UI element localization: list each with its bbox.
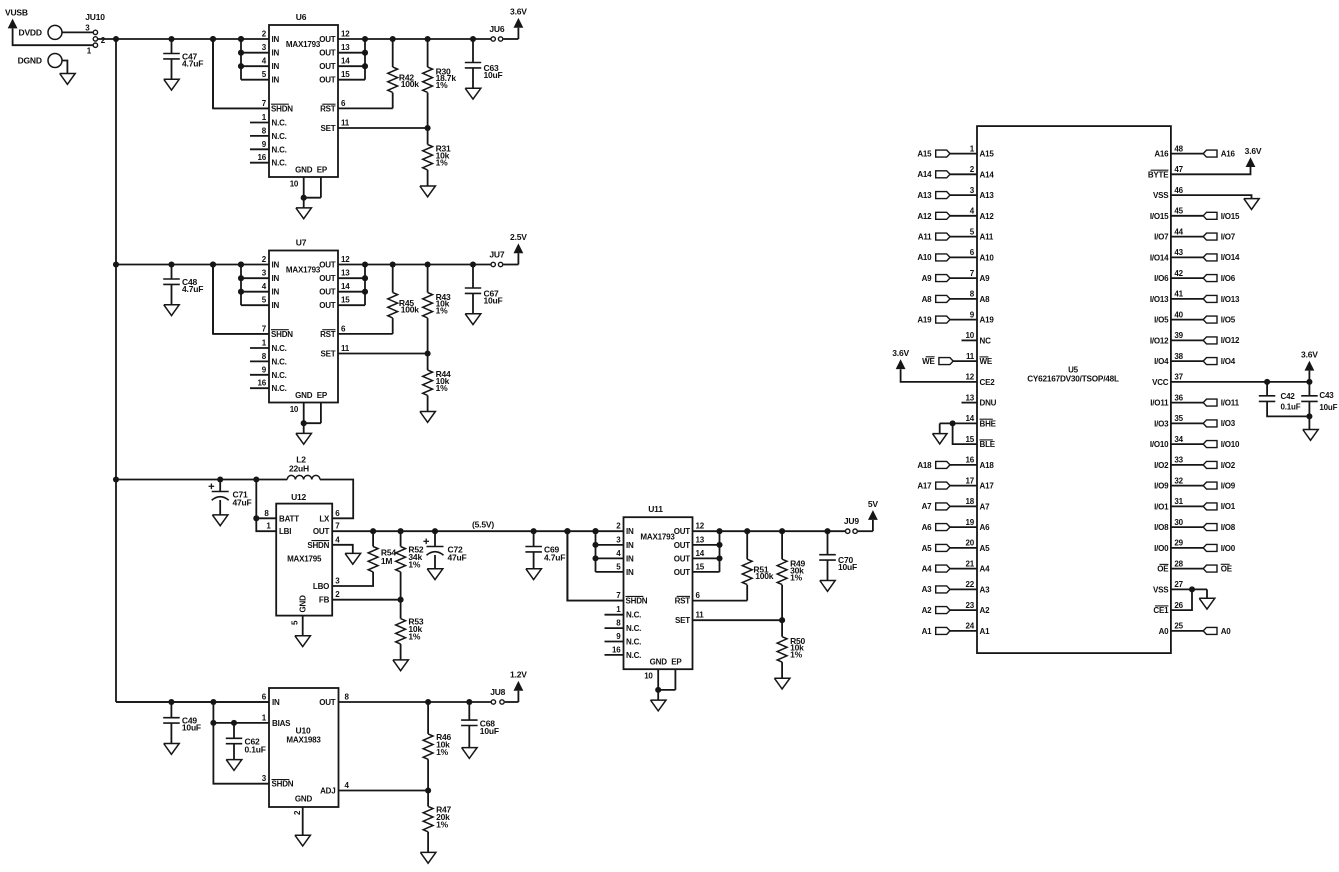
svg-text:A3: A3: [980, 585, 991, 594]
svg-text:2.5V: 2.5V: [510, 232, 527, 242]
svg-text:IN: IN: [626, 527, 634, 536]
svg-text:16: 16: [612, 645, 621, 654]
svg-text:I/O6: I/O6: [1154, 274, 1169, 283]
svg-text:17: 17: [966, 476, 975, 485]
svg-text:BLE: BLE: [980, 440, 996, 449]
svg-text:JU8: JU8: [490, 687, 505, 697]
svg-text:OUT: OUT: [319, 288, 336, 297]
svg-text:JU7: JU7: [489, 250, 504, 260]
svg-text:13: 13: [966, 393, 975, 402]
svg-text:A16: A16: [1221, 150, 1236, 159]
svg-text:WE: WE: [980, 357, 993, 366]
svg-text:6: 6: [335, 509, 340, 518]
svg-text:N.C.: N.C.: [272, 357, 287, 366]
svg-text:I/O2: I/O2: [1221, 461, 1236, 470]
svg-text:12: 12: [696, 522, 705, 531]
svg-text:13: 13: [696, 535, 705, 544]
svg-text:I/O13: I/O13: [1150, 295, 1169, 304]
svg-text:VCC: VCC: [1152, 378, 1169, 387]
svg-text:I/O11: I/O11: [1150, 399, 1169, 408]
svg-text:N.C.: N.C.: [626, 624, 641, 633]
svg-text:N.C.: N.C.: [272, 344, 287, 353]
svg-text:JU10: JU10: [85, 12, 105, 22]
svg-text:A14: A14: [980, 170, 995, 179]
svg-text:MAX1983: MAX1983: [286, 736, 321, 745]
svg-text:10: 10: [644, 672, 653, 681]
svg-text:10: 10: [290, 405, 299, 414]
svg-text:1%: 1%: [436, 820, 449, 830]
svg-text:1%: 1%: [790, 650, 803, 660]
svg-text:I/O2: I/O2: [1154, 461, 1169, 470]
svg-text:OUT: OUT: [319, 698, 336, 707]
svg-text:A5: A5: [922, 544, 933, 553]
svg-text:NC: NC: [980, 336, 992, 345]
svg-text:28: 28: [1174, 559, 1183, 568]
svg-text:33: 33: [1174, 456, 1183, 465]
svg-text:CE1: CE1: [1153, 606, 1169, 615]
svg-text:RST: RST: [320, 330, 336, 339]
svg-text:A6: A6: [922, 523, 933, 532]
svg-text:OE: OE: [1157, 565, 1169, 574]
svg-text:44: 44: [1174, 227, 1183, 236]
svg-text:45: 45: [1174, 207, 1183, 216]
svg-text:4.7uF: 4.7uF: [544, 553, 565, 563]
svg-text:I/O6: I/O6: [1221, 274, 1236, 283]
svg-text:VSS: VSS: [1153, 585, 1169, 594]
svg-text:10uF: 10uF: [182, 723, 201, 733]
svg-text:24: 24: [966, 622, 975, 631]
svg-text:A1: A1: [922, 627, 933, 636]
svg-text:20: 20: [966, 539, 975, 548]
svg-text:U12: U12: [291, 492, 306, 502]
svg-text:SET: SET: [321, 124, 336, 133]
svg-text:I/O5: I/O5: [1154, 316, 1169, 325]
svg-text:3.6V: 3.6V: [510, 7, 527, 17]
svg-text:OUT: OUT: [319, 49, 336, 58]
svg-text:1%: 1%: [436, 80, 449, 90]
svg-text:5V: 5V: [868, 499, 879, 509]
svg-text:1%: 1%: [436, 157, 449, 167]
svg-text:I/O15: I/O15: [1150, 212, 1169, 221]
svg-text:N.C.: N.C.: [272, 384, 287, 393]
svg-text:SHDN: SHDN: [307, 541, 329, 550]
svg-text:47uF: 47uF: [448, 553, 467, 563]
svg-text:0.1uF: 0.1uF: [245, 744, 266, 754]
svg-text:12: 12: [966, 373, 975, 382]
svg-text:SHDN: SHDN: [271, 104, 293, 113]
svg-text:29: 29: [1174, 539, 1183, 548]
svg-text:VSS: VSS: [1153, 191, 1169, 200]
svg-text:10uF: 10uF: [480, 726, 499, 736]
svg-text:39: 39: [1174, 331, 1183, 340]
svg-text:C42: C42: [1281, 392, 1296, 401]
svg-text:43: 43: [1174, 248, 1183, 257]
svg-text:OE: OE: [1221, 565, 1233, 574]
svg-text:OUT: OUT: [319, 62, 336, 71]
svg-text:A11: A11: [918, 233, 932, 242]
svg-text:IN: IN: [272, 35, 280, 44]
svg-text:10: 10: [290, 180, 299, 189]
svg-text:A0: A0: [1159, 627, 1170, 636]
svg-text:A18: A18: [980, 461, 995, 470]
svg-text:WE: WE: [922, 357, 935, 366]
svg-text:N.C.: N.C.: [272, 119, 287, 128]
svg-text:BHE: BHE: [980, 419, 997, 428]
svg-text:11: 11: [341, 344, 350, 353]
svg-text:I/O11: I/O11: [1221, 399, 1240, 408]
svg-text:12: 12: [341, 30, 350, 39]
svg-text:A3: A3: [922, 585, 933, 594]
svg-text:10: 10: [966, 331, 975, 340]
svg-text:RST: RST: [320, 104, 336, 113]
svg-text:U5: U5: [1068, 366, 1079, 375]
svg-text:I/O14: I/O14: [1150, 253, 1169, 262]
svg-text:IN: IN: [626, 554, 634, 563]
svg-text:SHDN: SHDN: [271, 330, 293, 339]
svg-text:15: 15: [341, 296, 350, 305]
svg-text:(5.5V): (5.5V): [472, 519, 494, 529]
svg-text:3.6V: 3.6V: [892, 348, 909, 358]
svg-text:EP: EP: [671, 658, 682, 667]
svg-text:U11: U11: [648, 504, 663, 514]
svg-text:A15: A15: [980, 150, 995, 159]
svg-text:A7: A7: [922, 502, 933, 511]
svg-text:10uF: 10uF: [484, 295, 503, 305]
svg-text:31: 31: [1174, 497, 1183, 506]
svg-text:A8: A8: [922, 295, 933, 304]
svg-text:SET: SET: [321, 350, 336, 359]
svg-text:10uF: 10uF: [1319, 403, 1337, 412]
svg-text:CY62167DV30/TSOP/48L: CY62167DV30/TSOP/48L: [1027, 375, 1119, 384]
svg-text:GND: GND: [650, 658, 668, 667]
svg-text:3.6V: 3.6V: [1245, 146, 1262, 156]
svg-text:13: 13: [341, 269, 350, 278]
svg-text:I/O13: I/O13: [1221, 295, 1240, 304]
svg-text:DNU: DNU: [980, 399, 997, 408]
svg-text:FB: FB: [319, 596, 330, 605]
svg-text:A10: A10: [917, 253, 932, 262]
svg-text:13: 13: [341, 43, 350, 52]
svg-text:CE2: CE2: [980, 378, 996, 387]
svg-text:25: 25: [1174, 622, 1183, 631]
svg-text:I/O4: I/O4: [1154, 357, 1169, 366]
svg-text:3: 3: [335, 577, 340, 586]
svg-text:0.1uF: 0.1uF: [1281, 403, 1301, 412]
svg-text:IN: IN: [272, 301, 280, 310]
svg-text:40: 40: [1174, 310, 1183, 319]
svg-text:SHDN: SHDN: [272, 780, 294, 789]
svg-text:IN: IN: [626, 541, 634, 550]
svg-text:14: 14: [341, 282, 350, 291]
svg-text:SET: SET: [675, 616, 690, 625]
svg-text:A13: A13: [980, 191, 995, 200]
svg-text:1%: 1%: [408, 560, 421, 570]
svg-text:OUT: OUT: [319, 274, 336, 283]
svg-text:I/O3: I/O3: [1154, 419, 1169, 428]
svg-text:A11: A11: [980, 233, 994, 242]
svg-text:27: 27: [1174, 580, 1183, 589]
svg-text:I/O12: I/O12: [1150, 336, 1169, 345]
svg-text:100k: 100k: [755, 571, 774, 581]
svg-text:I/O7: I/O7: [1154, 233, 1169, 242]
svg-text:A2: A2: [922, 606, 933, 615]
svg-text:JU9: JU9: [844, 516, 859, 526]
svg-text:IN: IN: [272, 62, 280, 71]
svg-text:2: 2: [101, 36, 106, 45]
svg-text:21: 21: [966, 559, 975, 568]
svg-text:A4: A4: [980, 565, 991, 574]
svg-text:100k: 100k: [401, 304, 420, 314]
svg-text:12: 12: [341, 255, 350, 264]
svg-text:42: 42: [1174, 269, 1183, 278]
svg-text:A10: A10: [980, 253, 995, 262]
svg-text:I/O0: I/O0: [1221, 544, 1236, 553]
svg-text:2: 2: [335, 590, 340, 599]
svg-text:OUT: OUT: [674, 541, 691, 550]
svg-text:N.C.: N.C.: [272, 159, 287, 168]
svg-text:OUT: OUT: [313, 527, 330, 536]
svg-text:OUT: OUT: [319, 35, 336, 44]
svg-text:A19: A19: [980, 316, 995, 325]
svg-text:A9: A9: [922, 274, 933, 283]
svg-text:7: 7: [335, 522, 340, 531]
svg-text:VUSB: VUSB: [5, 8, 28, 18]
svg-text:1: 1: [266, 522, 271, 531]
svg-text:36: 36: [1174, 393, 1183, 402]
svg-text:U7: U7: [296, 238, 307, 248]
svg-text:11: 11: [341, 119, 350, 128]
svg-text:15: 15: [966, 435, 975, 444]
svg-text:OUT: OUT: [674, 527, 691, 536]
svg-text:22uH: 22uH: [289, 464, 309, 474]
svg-text:I/O10: I/O10: [1150, 440, 1169, 449]
svg-text:N.C.: N.C.: [626, 611, 641, 620]
svg-text:IN: IN: [272, 261, 280, 270]
svg-text:A13: A13: [917, 191, 932, 200]
svg-text:14: 14: [341, 57, 350, 66]
svg-text:IN: IN: [626, 568, 634, 577]
svg-text:A17: A17: [980, 482, 995, 491]
svg-text:A4: A4: [922, 565, 933, 574]
svg-text:1%: 1%: [790, 572, 803, 582]
svg-text:U10: U10: [296, 726, 311, 736]
svg-text:I/O1: I/O1: [1221, 502, 1236, 511]
svg-text:I/O8: I/O8: [1221, 523, 1236, 532]
svg-text:MAX1793: MAX1793: [286, 40, 321, 49]
svg-text:A18: A18: [917, 461, 932, 470]
svg-text:OUT: OUT: [319, 261, 336, 270]
svg-text:U6: U6: [296, 12, 307, 22]
svg-text:MAX1793: MAX1793: [286, 266, 321, 275]
svg-text:11: 11: [966, 352, 975, 361]
svg-text:8: 8: [264, 509, 269, 518]
svg-text:A2: A2: [980, 606, 991, 615]
svg-text:N.C.: N.C.: [272, 145, 287, 154]
svg-text:JU6: JU6: [489, 24, 504, 34]
svg-text:14: 14: [966, 414, 975, 423]
svg-text:OUT: OUT: [674, 568, 691, 577]
svg-text:SHDN: SHDN: [626, 597, 648, 606]
svg-text:I/O9: I/O9: [1154, 482, 1169, 491]
svg-text:BYTE: BYTE: [1148, 170, 1169, 179]
svg-text:BATT: BATT: [279, 514, 299, 523]
svg-text:32: 32: [1174, 476, 1183, 485]
svg-text:GND: GND: [295, 795, 313, 804]
svg-text:47: 47: [1174, 165, 1183, 174]
svg-text:4: 4: [335, 535, 340, 544]
svg-text:10uF: 10uF: [484, 70, 503, 80]
svg-text:I/O0: I/O0: [1154, 544, 1169, 553]
svg-text:30: 30: [1174, 518, 1183, 527]
svg-text:1%: 1%: [436, 383, 449, 393]
svg-text:N.C.: N.C.: [272, 132, 287, 141]
svg-text:15: 15: [341, 70, 350, 79]
svg-text:IN: IN: [272, 698, 280, 707]
svg-text:1M: 1M: [381, 556, 393, 566]
svg-text:I/O1: I/O1: [1154, 502, 1169, 511]
svg-text:I/O14: I/O14: [1221, 253, 1240, 262]
svg-text:34: 34: [1174, 435, 1183, 444]
svg-text:22: 22: [966, 580, 975, 589]
svg-text:A14: A14: [917, 170, 932, 179]
svg-text:A16: A16: [1154, 150, 1169, 159]
svg-text:LX: LX: [319, 514, 330, 523]
svg-text:18: 18: [966, 497, 975, 506]
svg-text:A1: A1: [980, 627, 991, 636]
svg-text:A0: A0: [1221, 627, 1232, 636]
svg-text:I/O9: I/O9: [1221, 482, 1236, 491]
svg-text:41: 41: [1174, 290, 1183, 299]
svg-text:I/O7: I/O7: [1221, 233, 1236, 242]
svg-text:GND: GND: [299, 595, 308, 613]
svg-text:I/O10: I/O10: [1221, 440, 1240, 449]
svg-text:I/O8: I/O8: [1154, 523, 1169, 532]
svg-text:16: 16: [258, 153, 267, 162]
svg-text:A9: A9: [980, 274, 991, 283]
svg-text:A7: A7: [980, 502, 991, 511]
svg-text:10uF: 10uF: [838, 562, 857, 572]
svg-text:I/O12: I/O12: [1221, 336, 1240, 345]
svg-text:100k: 100k: [401, 79, 420, 89]
svg-text:A12: A12: [917, 212, 932, 221]
svg-text:LBI: LBI: [279, 527, 291, 536]
svg-text:DGND: DGND: [18, 56, 42, 66]
svg-text:IN: IN: [272, 288, 280, 297]
svg-text:OUT: OUT: [319, 76, 336, 85]
svg-text:A15: A15: [917, 150, 932, 159]
svg-text:EP: EP: [317, 391, 328, 400]
svg-text:IN: IN: [272, 49, 280, 58]
svg-text:EP: EP: [317, 166, 328, 175]
svg-text:A6: A6: [980, 523, 991, 532]
svg-text:14: 14: [696, 549, 705, 558]
svg-text:MAX1795: MAX1795: [287, 555, 322, 564]
svg-text:I/O5: I/O5: [1221, 316, 1236, 325]
svg-text:N.C.: N.C.: [272, 371, 287, 380]
svg-text:C43: C43: [1319, 391, 1334, 400]
svg-text:38: 38: [1174, 352, 1183, 361]
svg-text:A17: A17: [917, 482, 932, 491]
svg-text:I/O3: I/O3: [1221, 419, 1236, 428]
svg-text:37: 37: [1174, 373, 1183, 382]
svg-text:1.2V: 1.2V: [510, 670, 527, 680]
svg-text:1%: 1%: [436, 306, 449, 316]
svg-text:GND: GND: [295, 391, 313, 400]
svg-text:LBO: LBO: [313, 582, 329, 591]
svg-text:48: 48: [1174, 144, 1183, 153]
svg-text:N.C.: N.C.: [626, 651, 641, 660]
svg-text:A19: A19: [917, 316, 932, 325]
svg-text:BIAS: BIAS: [272, 719, 291, 728]
svg-text:IN: IN: [272, 76, 280, 85]
svg-text:46: 46: [1174, 186, 1183, 195]
svg-text:23: 23: [966, 601, 975, 610]
svg-text:MAX1793: MAX1793: [640, 532, 675, 541]
svg-text:19: 19: [966, 518, 975, 527]
svg-text:35: 35: [1174, 414, 1183, 423]
svg-text:DVDD: DVDD: [19, 28, 42, 38]
svg-text:OUT: OUT: [319, 301, 336, 310]
svg-text:1%: 1%: [436, 747, 449, 757]
svg-text:4.7uF: 4.7uF: [182, 284, 203, 294]
svg-text:15: 15: [696, 562, 705, 571]
svg-text:OUT: OUT: [674, 554, 691, 563]
svg-text:I/O15: I/O15: [1221, 212, 1240, 221]
svg-text:26: 26: [1174, 601, 1183, 610]
svg-text:RST: RST: [675, 597, 691, 606]
svg-text:N.C.: N.C.: [626, 638, 641, 647]
svg-text:I/O4: I/O4: [1221, 357, 1236, 366]
svg-text:16: 16: [966, 456, 975, 465]
svg-text:GND: GND: [295, 166, 313, 175]
svg-text:IN: IN: [272, 274, 280, 283]
svg-text:47uF: 47uF: [233, 498, 252, 508]
svg-text:3.6V: 3.6V: [1301, 350, 1318, 360]
svg-text:ADJ: ADJ: [320, 787, 335, 796]
svg-text:A8: A8: [980, 295, 991, 304]
svg-text:11: 11: [696, 611, 705, 620]
svg-text:A12: A12: [980, 212, 995, 221]
svg-text:1%: 1%: [408, 632, 421, 642]
svg-text:16: 16: [258, 379, 267, 388]
svg-text:A5: A5: [980, 544, 991, 553]
svg-text:4.7uF: 4.7uF: [182, 58, 203, 68]
